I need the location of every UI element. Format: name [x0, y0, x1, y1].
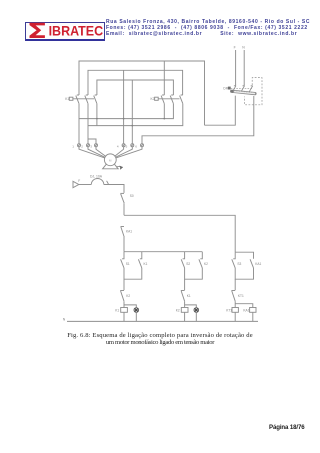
contactor K1: [65, 95, 97, 104]
wire branch C down: [234, 279, 236, 290]
svg-text:KT1: KT1: [226, 309, 232, 313]
svg-text:6: 6: [135, 145, 137, 149]
coil K2: [176, 308, 188, 313]
wire K1 pole3 to line B: [96, 104, 98, 126]
wire coil KA1 to rail: [252, 312, 254, 321]
dashed box differential unit: [245, 78, 262, 105]
wire lamp H2 to rail: [195, 312, 197, 321]
wire branch A merge: [124, 268, 142, 279]
pushbutton S2 NO: [181, 252, 190, 268]
wire K2 contact to coil K1: [123, 301, 125, 307]
wire supply line F: [235, 50, 237, 85]
wire drop from second bus to terminal 4: [123, 70, 125, 144]
wire second bus: [88, 70, 183, 95]
terminal 1: [72, 144, 80, 149]
svg-text:N: N: [63, 317, 66, 321]
wire control feed: [79, 184, 92, 186]
svg-text:3: 3: [90, 145, 92, 149]
wire outer bus: [79, 61, 205, 125]
svg-text:1: 1: [72, 145, 74, 149]
wire branch line 2: [124, 251, 202, 253]
svg-text:K1: K1: [115, 309, 119, 313]
wire branch B merge: [185, 268, 203, 279]
circuit breaker DR: [223, 85, 255, 94]
terminal 3: [90, 144, 97, 149]
wire DR output to motor terminal 6: [142, 96, 254, 144]
contact KA1 NC: [121, 227, 133, 238]
pushbutton S1 NO: [121, 252, 130, 268]
svg-text:5: 5: [126, 145, 128, 149]
svg-text:S1: S1: [126, 262, 130, 266]
svg-text:F: F: [78, 179, 80, 183]
wire lamp H1 tap: [124, 305, 136, 308]
wire line A: [79, 104, 173, 119]
coil KA1: [243, 308, 256, 313]
contact K2 NO: [199, 252, 208, 268]
contact K2 NC interlock: [120, 291, 130, 302]
wire DJ to S0: [104, 185, 124, 193]
circuit breaker DJ 10A: [90, 174, 108, 184]
header address block: [106, 19, 316, 37]
wire supply line N: [243, 50, 245, 85]
logo box SIBRATEC: [25, 22, 105, 41]
wire K2 pole1 to line A: [163, 104, 165, 119]
svg-text:K1: K1: [144, 262, 148, 266]
terminal 4: [117, 144, 125, 149]
node F control feed symbol: [73, 179, 80, 188]
caption: [0, 333, 320, 347]
lamp H1: [134, 308, 139, 313]
wire drop from outer bus to contactor K2 pole 1: [163, 61, 165, 95]
svg-text:K2: K2: [151, 97, 155, 101]
svg-text:K1: K1: [187, 294, 191, 298]
wire K1 contact to coil K2: [184, 301, 186, 307]
ground arrow at motor: [116, 165, 120, 168]
wire third bus: [97, 80, 173, 95]
wire lamp H1 to rail: [135, 312, 137, 321]
svg-text:S0: S0: [130, 194, 134, 198]
contactor K2: [151, 95, 183, 104]
wire DR output to outer bus: [205, 96, 236, 126]
wire KT1 contact to coil KT1: [234, 301, 236, 307]
wire branch C bridge: [235, 252, 253, 259]
terminal 6: [135, 144, 143, 149]
coil KT1: [226, 308, 238, 313]
svg-text:S3: S3: [237, 262, 241, 266]
svg-text:KA1: KA1: [126, 229, 132, 233]
contact K1 NC interlock: [181, 291, 191, 302]
svg-text:KA1: KA1: [255, 262, 261, 266]
svg-text:2: 2: [81, 145, 83, 149]
wire line B: [88, 104, 183, 126]
wire coil K1 to rail: [123, 312, 125, 321]
wire branch B down: [184, 279, 186, 290]
svg-text:KA1: KA1: [243, 309, 249, 313]
junction dots power: [96, 118, 165, 127]
motor M1: [103, 154, 119, 169]
wire K1 pole2 down to jumper: [87, 104, 89, 144]
wire branch A down: [123, 279, 125, 290]
wire lamp H2 tap: [185, 305, 197, 308]
wire KA1 to branch line 2: [123, 237, 125, 252]
wire coil KT1 to rail: [234, 312, 236, 321]
wire coil KA1 tap: [235, 304, 253, 308]
coil K1: [115, 308, 127, 313]
svg-text:F: F: [234, 46, 236, 50]
contact KA1 NO: [250, 259, 261, 268]
contact K1 NO: [138, 252, 147, 268]
wire branch line 1: [124, 215, 235, 252]
terminal 5: [126, 144, 134, 149]
svg-text:K2: K2: [204, 262, 208, 266]
wire neutral rail: [67, 320, 258, 322]
wire drop from third bus to terminal 5: [131, 80, 133, 144]
wire S0 down to branch line 1: [123, 203, 125, 215]
logo S glyph: [30, 23, 45, 38]
svg-text:K2: K2: [126, 294, 130, 298]
contact KT1 NC: [231, 291, 244, 302]
wire branch C merge: [235, 268, 253, 279]
svg-text:M: M: [109, 158, 112, 162]
pushbutton S0 NC: [120, 193, 134, 203]
wire coil K2 to rail: [184, 312, 186, 321]
terminal 2: [81, 144, 89, 149]
svg-text:S2: S2: [186, 262, 190, 266]
svg-text:K1: K1: [65, 97, 69, 101]
svg-text:KT1: KT1: [238, 294, 244, 298]
svg-text:4: 4: [117, 145, 119, 149]
footer page number: [269, 424, 304, 431]
wire terminal leads to motor: [79, 147, 142, 158]
pushbutton S3 NO: [232, 252, 242, 268]
lamp H2: [194, 308, 199, 313]
wire K1 pole1 to terminal 1: [78, 104, 80, 144]
svg-text:N: N: [242, 46, 245, 50]
svg-text:DJ, 10A: DJ, 10A: [90, 174, 103, 178]
svg-text:K2: K2: [176, 309, 180, 313]
wire jumper terminals 2-3: [88, 139, 96, 144]
